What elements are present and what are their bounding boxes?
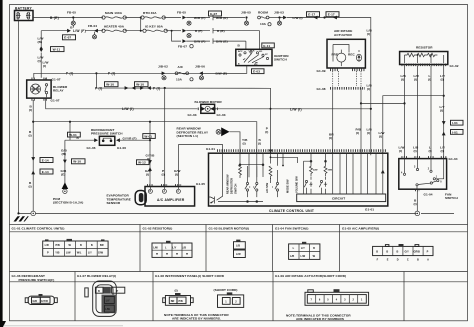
svg-text:(I): (I) [175, 172, 178, 176]
svg-text:(I): (I) [243, 142, 246, 146]
wire row B to FB-04 [85, 30, 103, 32]
svg-text:ACTUATOR: ACTUATOR [334, 33, 353, 37]
connector W-12 pair on amp wire [148, 160, 152, 164]
svg-text:(SHORT CORD): (SHORT CORD) [214, 288, 238, 292]
wire ignition output down to row P [96, 66, 246, 74]
svg-text:B/W (F): B/W (F) [194, 39, 206, 43]
svg-text:G/W: G/W [98, 252, 104, 255]
connector PCM arrow [62, 182, 69, 189]
scan edge smudge bottom-left [0, 321, 6, 327]
connector G1-08 hatch row [330, 87, 365, 90]
svg-text:L/Y: L/Y [106, 299, 110, 302]
svg-text:G1-04 FAN SWITCH(I): G1-04 FAN SWITCH(I) [275, 227, 309, 231]
svg-text:L/B: L/B [236, 244, 240, 247]
svg-text:L/Y: L/Y [301, 247, 305, 250]
connector pinout G1-05 [373, 244, 433, 261]
svg-text:G1-01: G1-01 [365, 207, 374, 211]
svg-text:(I): (I) [29, 108, 32, 112]
svg-text:BLOWER MOTOR: BLOWER MOTOR [195, 100, 223, 104]
climate internals: rotated labels [226, 174, 299, 194]
connector E-14 pair on B wire [31, 157, 35, 161]
svg-text:REC: REC [348, 52, 355, 56]
svg-text:IG KEY 80A: IG KEY 80A [145, 24, 164, 28]
node P branch from blower relay [95, 72, 97, 74]
wire amp pin A from P node [164, 88, 166, 187]
svg-text:B/W (E): B/W (E) [216, 39, 228, 43]
connector E-07 tick row A [212, 15, 214, 20]
svg-text:G1-05: G1-05 [196, 182, 205, 186]
svg-text:L/B: L/B [182, 246, 186, 249]
battery B1 [15, 6, 34, 20]
svg-text:W-12: W-12 [138, 161, 146, 165]
svg-text:G/Y: G/Y [405, 250, 410, 253]
wire fan switch ground [415, 189, 420, 192]
climate internals: left pins down [217, 150, 283, 201]
svg-text:A: A [427, 258, 429, 261]
connector W-01 on riser [143, 134, 156, 139]
svg-text:L/R: L/R [45, 244, 49, 247]
svg-text:BTN 40A: BTN 40A [143, 11, 157, 15]
svg-text:(SECTION B-1A,2A): (SECTION B-1A,2A) [53, 201, 83, 205]
outer frame of schematic page [10, 5, 468, 225]
svg-text:B (E): B (E) [217, 29, 225, 33]
svg-text:(I): (I) [367, 87, 370, 91]
svg-text:(I): (I) [265, 130, 268, 134]
svg-text:B: B [417, 258, 419, 261]
svg-text:E-14: E-14 [42, 170, 49, 174]
svg-text:E-07: E-07 [64, 36, 71, 40]
wire pressure switch right to riser [116, 138, 120, 142]
connector E-11 box label [262, 43, 275, 48]
wire row A B(E) from battery [33, 17, 103, 19]
svg-text:B/W (E): B/W (E) [216, 72, 228, 76]
connector pinout G1-03 [234, 240, 246, 258]
svg-text:(I): (I) [29, 134, 32, 138]
svg-text:SENSOR: SENSOR [107, 201, 121, 205]
svg-text:FB-05: FB-05 [67, 11, 76, 15]
wire row B corner down to ignition switch [259, 31, 261, 50]
climate control unit U2 box [209, 153, 388, 206]
svg-text:G1-09: G1-09 [317, 69, 326, 73]
ground bus wire [19, 212, 455, 214]
svg-text:(I): (I) [367, 32, 370, 36]
wire L/W(I) into relay pin [45, 78, 47, 80]
node P to blower amp [164, 87, 166, 89]
svg-text:(I): (I) [441, 149, 444, 153]
svg-text:L/Y: L/Y [88, 252, 92, 255]
svg-text:(I): (I) [43, 64, 46, 68]
svg-text:E-17: E-17 [308, 13, 315, 17]
svg-text:L/W: L/W [66, 252, 71, 255]
svg-text:J/B-03: J/B-03 [274, 11, 284, 15]
node pressure switch drop left [69, 121, 71, 123]
svg-text:BR: BR [171, 300, 175, 303]
svg-text:E-03: E-03 [253, 70, 260, 74]
node L/B tap [403, 102, 405, 104]
svg-text:G/Y/R: G/Y/R [41, 300, 48, 303]
node riser joins B row [149, 121, 151, 123]
svg-text:L/W: L/W [153, 246, 158, 249]
connector pinout G1-02 [152, 241, 192, 258]
wire dashed actuator drops [333, 71, 361, 88]
svg-text:G1-03 BLOWER MOTOR(I): G1-03 BLOWER MOTOR(I) [209, 227, 250, 231]
node J/B-05 tap [245, 16, 247, 18]
svg-text:B (F): B (F) [195, 29, 203, 33]
relay pin hatches bottom [32, 98, 49, 101]
climate internals: switches [218, 165, 279, 202]
svg-text:G1-07 BLOWER RELAY(I): G1-07 BLOWER RELAY(I) [77, 274, 116, 278]
svg-text:P (I): P (I) [153, 86, 160, 90]
svg-text:(I): (I) [258, 142, 261, 146]
connector W-10 pair 2 [135, 82, 149, 87]
wire L/B tap across [361, 102, 405, 104]
svg-text:P/B: P/B [179, 300, 183, 303]
wire riser down to amplifier pin B [149, 122, 151, 187]
svg-text:G/B: G/B [33, 300, 38, 303]
svg-text:PRESSURE SWITCH: PRESSURE SWITCH [91, 132, 123, 136]
svg-text:W-10: W-10 [136, 83, 144, 87]
svg-text:(I): (I) [428, 78, 431, 82]
connector pinout G1-06 oval [25, 294, 57, 305]
wire row C corner down to ignition switch [245, 41, 247, 49]
svg-text:W-01: W-01 [144, 134, 152, 138]
wire amp pin C up and right to climate pin [179, 145, 223, 187]
svg-text:G1-07: G1-07 [51, 99, 60, 103]
wire row A L/W(I) to right [283, 16, 287, 20]
svg-text:G1-01: G1-01 [206, 147, 215, 151]
svg-text:C: C [407, 258, 409, 261]
svg-text:L/W: L/W [301, 255, 306, 258]
svg-text:J/B-06: J/B-06 [195, 64, 205, 68]
svg-text:E-07: E-07 [210, 12, 217, 16]
wire L/B(I) long vertical [370, 30, 372, 153]
relay contact [45, 84, 47, 86]
svg-text:(I): (I) [399, 149, 402, 153]
svg-text:G1-05 A/C AMPLIFIER(I): G1-05 A/C AMPLIFIER(I) [342, 227, 379, 231]
fan switch SW3 [399, 159, 447, 190]
connector pinout G1-07 relay socket [85, 281, 125, 316]
wire relay pin up-right P branch [34, 73, 97, 78]
svg-text:(I): (I) [414, 202, 417, 206]
svg-text:B (E): B (E) [50, 16, 59, 20]
wire PCM branch [64, 140, 66, 184]
svg-text:RESISTOR: RESISTOR [416, 45, 433, 49]
svg-text:L/W (I): L/W (I) [293, 16, 303, 20]
svg-text:DEFROSTER: DEFROSTER [230, 178, 234, 194]
table frame [10, 225, 468, 321]
svg-text:G1-03: G1-03 [188, 113, 197, 117]
svg-text:MAIN 100A: MAIN 100A [105, 11, 123, 15]
relay pin hatches top [32, 78, 49, 81]
svg-text:W-10: W-10 [106, 83, 114, 87]
node tap y=121.7 row [32, 121, 34, 123]
connector W-10 pair 1 [105, 82, 119, 87]
node L/Y tap [443, 95, 445, 97]
wire L/W row continue right [215, 108, 371, 110]
svg-text:CLIMATE CONTROL UNIT: CLIMATE CONTROL UNIT [269, 209, 314, 213]
svg-text:G/Y/R (F): G/Y/R (F) [123, 136, 137, 140]
circuit sub-box [297, 194, 386, 202]
svg-text:GR/B: GR/B [414, 250, 420, 253]
wire L/W row from relay to blower motor [46, 99, 198, 109]
ground symbol chassis [14, 216, 29, 221]
svg-text:G1-02 RESISTOR(I): G1-02 RESISTOR(I) [143, 227, 173, 231]
svg-text:(I): (I) [441, 78, 444, 82]
svg-text:BR: BR [100, 244, 104, 247]
svg-text:(B): (B) [62, 152, 67, 156]
svg-text:L/W: L/W [236, 253, 241, 256]
svg-text:LOCK: LOCK [249, 51, 255, 53]
svg-text:CIRCUIT: CIRCUIT [332, 196, 345, 200]
svg-text:P/B: P/B [56, 244, 60, 247]
wire L/W(B) down to blower relay [40, 31, 42, 78]
svg-text:B: B [386, 250, 388, 253]
node FB-05 tap [72, 16, 74, 18]
svg-text:SWITCH: SWITCH [274, 58, 287, 62]
svg-text:L/Y: L/Y [172, 246, 176, 249]
svg-text:10A: 10A [260, 22, 267, 26]
svg-text:(I): (I) [162, 172, 165, 176]
svg-text:(I): (I) [146, 172, 149, 176]
svg-text:G1-08 INSTRUMENT PANEL(I) SHOR: G1-08 INSTRUMENT PANEL(I) SHORT CORD [155, 274, 225, 278]
svg-text:P (I): P (I) [108, 72, 115, 76]
relay coil [31, 84, 41, 94]
connector E-03 box label [252, 69, 265, 74]
svg-text:E-17: E-17 [328, 13, 335, 17]
blower relay RLY1 [27, 80, 51, 98]
svg-text:I-01: I-01 [452, 130, 458, 134]
svg-text:W-10: W-10 [73, 160, 81, 164]
svg-text:FB-04: FB-04 [88, 24, 97, 28]
svg-text:E-11: E-11 [263, 44, 270, 48]
svg-text:W/L: W/L [77, 252, 82, 255]
svg-text:(I): (I) [329, 136, 332, 140]
connector FB-05 circle-x [71, 21, 75, 25]
svg-text:(I): (I) [414, 149, 417, 153]
svg-text:PRESSURE SWITCH(F): PRESSURE SWITCH(F) [19, 278, 55, 282]
svg-text:REAR WINDOW: REAR WINDOW [226, 174, 230, 194]
svg-text:D: D [397, 258, 399, 261]
svg-text:G1-09 AIR INTAKE ACTUATOR(SHOR: G1-09 AIR INTAKE ACTUATOR(SHORT CORD) [275, 274, 346, 278]
svg-text:G1-04: G1-04 [424, 192, 433, 196]
svg-text:MODE S/W: MODE S/W [286, 179, 290, 193]
svg-text:FB-07: FB-07 [178, 44, 187, 48]
svg-text:(SECTION I-1): (SECTION I-1) [177, 134, 199, 138]
svg-text:(I): (I) [414, 78, 417, 82]
svg-text:G1-06: G1-06 [117, 146, 126, 150]
svg-text:L/W (F): L/W (F) [73, 29, 86, 33]
connector G1-09 hatch row under actuator [330, 69, 365, 72]
svg-text:(I): (I) [29, 185, 32, 189]
svg-text:G1-07: G1-07 [52, 77, 61, 81]
connector arrows FB row B [182, 29, 186, 33]
svg-text:BATTERY: BATTERY [15, 6, 33, 10]
svg-text:HEATER 40A: HEATER 40A [104, 24, 125, 28]
node tap to row C [171, 30, 173, 32]
svg-text:RELAY: RELAY [53, 89, 65, 93]
svg-text:B: B [80, 244, 82, 247]
connector pinout G1-09 [286, 289, 369, 321]
wire link between rows [140, 18, 142, 31]
connector fan ground circle [415, 211, 420, 216]
svg-text:(I): (I) [38, 59, 41, 63]
scan edge black bar left [0, 0, 3, 324]
svg-text:VOLUME S/W: VOLUME S/W [295, 176, 299, 193]
svg-text:G1-03: G1-03 [217, 113, 226, 117]
svg-text:A/C: A/C [178, 65, 184, 69]
connector E-17 pair boxes [307, 12, 320, 17]
svg-text:E-14: E-14 [42, 158, 49, 162]
svg-text:W/B (F): W/B (F) [194, 16, 206, 20]
svg-text:(I): (I) [429, 149, 432, 153]
wire P row to amplifier [96, 73, 270, 151]
svg-text:I-01: I-01 [452, 121, 458, 125]
svg-text:A/C AMPLIFIER: A/C AMPLIFIER [157, 198, 185, 202]
svg-text:15A: 15A [176, 77, 183, 81]
svg-text:(B): (B) [38, 40, 43, 44]
svg-text:ACC: ACC [238, 50, 243, 53]
wire battery negative to ground bus [18, 21, 20, 214]
svg-text:G1-08: G1-08 [317, 87, 326, 91]
svg-text:L/W: L/W [105, 308, 110, 311]
connector arrows FB row A [182, 16, 186, 20]
svg-text:ARE INDICATED BY NUMBERS.: ARE INDICATED BY NUMBERS. [172, 317, 221, 321]
svg-text:B: B [376, 250, 378, 253]
connector E-07 box top [209, 11, 222, 16]
svg-text:A/C S/W: A/C S/W [265, 182, 269, 193]
svg-text:G1-02: G1-02 [450, 64, 459, 68]
connector E-07 tick row B [212, 28, 214, 33]
connector pinout G1-04 [289, 242, 320, 260]
svg-text:P (I): P (I) [95, 86, 102, 90]
svg-text:FB-05: FB-05 [177, 11, 186, 15]
connector pinout G1-01 [43, 239, 108, 256]
svg-text:(I): (I) [175, 289, 178, 293]
connector W-11 inline diamond [40, 46, 43, 52]
svg-text:ROOM: ROOM [258, 11, 268, 15]
svg-text:G1-06: G1-06 [87, 146, 96, 150]
A/C amplifier U1 [145, 187, 195, 207]
wire actuator outputs down to climate unit [333, 88, 361, 153]
wire B tap row y=121.7 [33, 122, 257, 150]
node FB-04 [94, 29, 98, 33]
svg-text:J/B-02: J/B-02 [158, 64, 168, 68]
svg-text:L/W (I): L/W (I) [122, 107, 134, 111]
connector arrows FB row C [182, 39, 186, 43]
svg-text:B: B [313, 247, 315, 250]
svg-text:(I): (I) [356, 131, 359, 135]
svg-text:G1-01 CLIMATE CONTROL UNIT(I): G1-01 CLIMATE CONTROL UNIT(I) [12, 227, 65, 231]
svg-text:SWITCH: SWITCH [445, 196, 458, 200]
wire L/Y tap to climate unit [383, 96, 444, 154]
svg-text:J/B-05: J/B-05 [241, 11, 251, 15]
svg-text:Y/B: Y/B [55, 252, 59, 255]
transistor Q1 [209, 197, 215, 204]
svg-text:ARE INDICATED BY NUMBERS: ARE INDICATED BY NUMBERS [296, 317, 344, 321]
svg-text:L/W (I): L/W (I) [290, 108, 302, 112]
svg-text:B: B [91, 244, 93, 247]
svg-text:(I): (I) [367, 131, 370, 135]
connector W-01 left box [68, 132, 81, 137]
svg-text:L/B: L/B [290, 255, 294, 258]
svg-text:(I): (I) [379, 135, 382, 139]
climate internals: resistors right [304, 153, 328, 194]
svg-text:SWITCH: SWITCH [234, 184, 238, 194]
svg-text:(I): (I) [401, 78, 404, 82]
node J/B-03 tap [269, 17, 283, 19]
svg-text:G1-04: G1-04 [449, 157, 458, 161]
wire relay B output down to ground [32, 100, 34, 211]
connector ground joint circle [31, 211, 36, 216]
connector E-07 tick row C [212, 38, 214, 43]
ignition switch SW1 [236, 49, 272, 65]
climate internals: right pin drops to circuit [333, 153, 383, 194]
svg-text:W-11: W-11 [53, 48, 61, 52]
svg-text:(I): (I) [440, 109, 443, 113]
svg-text:B: B [98, 290, 100, 293]
connector E-07 box label [63, 35, 76, 40]
wire resistor outputs [405, 66, 444, 157]
svg-text:(E): (E) [61, 172, 65, 176]
svg-text:B: B [397, 250, 399, 253]
connector pinout G1-08 [163, 288, 244, 321]
